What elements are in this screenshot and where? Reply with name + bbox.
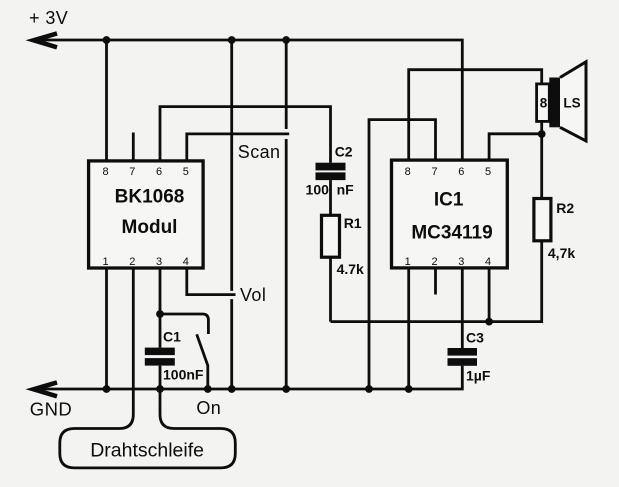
wire Scan switch upper (from +3V rail) <box>285 40 288 129</box>
wire BK1068 pin 6 to C2 top <box>160 107 331 163</box>
svg-text:1: 1 <box>405 256 411 268</box>
svg-text:8: 8 <box>405 166 411 178</box>
svg-text:5: 5 <box>183 166 189 178</box>
wire IC1 pin 5 to speaker bottom node <box>489 134 542 160</box>
node mid rail / IC1 pin 4 <box>485 318 493 326</box>
svg-text:2: 2 <box>431 256 437 268</box>
wire BK1068 pin 3 to C1 top <box>159 268 162 348</box>
svg-text:1: 1 <box>102 256 108 268</box>
wire IC1 pin 8 to speaker top <box>409 70 542 160</box>
svg-text:6: 6 <box>156 166 162 178</box>
node +3V rail / Scan wire <box>282 36 290 44</box>
svg-text:Drahtschleife: Drahtschleife <box>90 439 204 461</box>
svg-text:4: 4 <box>485 256 491 268</box>
svg-text:Scan: Scan <box>238 142 281 162</box>
svg-text:4: 4 <box>183 256 189 268</box>
wire BK1068 pin 4 to Vol switch contact <box>187 268 236 295</box>
wire BK1068 pin 7 stub <box>132 133 135 161</box>
node GND rail / C1 <box>156 385 164 393</box>
svg-text:8: 8 <box>540 96 548 111</box>
svg-text:LS: LS <box>563 96 580 111</box>
pin numbers BK1068 bottom 1 2 3 4 <box>102 256 188 268</box>
wire C2 bottom to R1 top <box>329 180 332 215</box>
pin numbers IC1 top 8 7 6 5 <box>405 166 492 178</box>
wire BK1068 pin 5 to Scan switch contact <box>187 134 289 161</box>
wire On switch blade and lower lead to GND <box>197 334 208 389</box>
svg-text:5: 5 <box>485 166 491 178</box>
svg-text:BK1068: BK1068 <box>115 187 185 208</box>
wire mid horizontal rail R1 to R2 <box>331 241 542 322</box>
svg-text:IC1: IC1 <box>434 190 464 211</box>
pin numbers IC1 bottom 1 2 3 4 <box>405 256 492 268</box>
wire BK1068 pin 8 to +3V rail <box>105 40 108 161</box>
node GND rail / IC1 pin 1 <box>405 385 413 393</box>
svg-text:2: 2 <box>129 256 135 268</box>
wire IC1 pin 7 to GND rail <box>369 120 436 389</box>
svg-text:C2: C2 <box>335 144 353 160</box>
svg-text:6: 6 <box>458 166 464 178</box>
pin numbers BK1068 top 8 7 6 5 <box>102 166 188 178</box>
wire IC1 pin 3 to C3 top <box>461 268 464 348</box>
resistor R1 <box>322 215 340 257</box>
svg-text:7: 7 <box>129 166 135 178</box>
svg-text:R1: R1 <box>344 215 362 231</box>
wire Scan switch lower (to GND rail) <box>285 139 288 389</box>
svg-text:3: 3 <box>458 256 464 268</box>
resistor R2 <box>534 199 551 241</box>
node GND rail / Scan wire <box>282 385 290 393</box>
svg-text:GND: GND <box>30 399 72 420</box>
speaker LS driver box with impedance 8 <box>537 84 550 122</box>
wire On switch branch from node at C1 <box>160 314 208 334</box>
svg-text:Vol: Vol <box>240 285 266 305</box>
svg-text:C1: C1 <box>163 329 181 345</box>
IC U1 BK1068 Modul box <box>89 161 204 268</box>
svg-text:100: 100 <box>306 181 330 197</box>
wire BK1068 pin 1 to GND rail <box>105 268 108 389</box>
wire R1 bottom to mid rail <box>329 257 332 321</box>
svg-text:R2: R2 <box>556 200 574 216</box>
svg-text:7: 7 <box>431 166 437 178</box>
svg-text:MC34119: MC34119 <box>411 223 492 244</box>
wire IC1 pin 2 stub <box>434 268 437 295</box>
svg-text:On: On <box>196 398 221 418</box>
IC U2 IC1 MC34119 box <box>392 160 508 268</box>
wire +3V rail top, continues down to IC1 pin 6 <box>33 40 462 160</box>
wire IC1 pin 4 to mid rail <box>488 268 491 322</box>
wire BK1068 pin 2 through loop to BK1068 pin 3 (Drahtschleife) <box>60 268 236 468</box>
node speaker bottom / IC1 pin 5 / R2 <box>538 130 546 138</box>
svg-text:8: 8 <box>102 166 108 178</box>
svg-text:1µF: 1µF <box>466 368 491 384</box>
svg-text:3: 3 <box>156 256 162 268</box>
svg-text:4.7k: 4.7k <box>337 261 364 277</box>
wire Vol switch upper (from +3V rail) <box>230 40 233 291</box>
capacitor C3 plates <box>448 348 478 366</box>
svg-text:+ 3V: + 3V <box>29 8 68 28</box>
svg-text:C3: C3 <box>466 329 484 345</box>
arrow +3V rail left <box>34 33 57 47</box>
node +3V rail / Vol wire <box>228 36 236 44</box>
node GND rail / On switch <box>204 385 212 393</box>
node GND rail / IC1 pin 7 wire <box>365 385 373 393</box>
arrow GND rail left <box>34 382 57 396</box>
svg-text:100nF: 100nF <box>163 367 204 383</box>
node +3V rail / pin 8 <box>103 36 111 44</box>
node GND rail / pin 1 <box>103 385 111 393</box>
svg-text:nF: nF <box>337 181 355 197</box>
svg-text:Modul: Modul <box>122 217 178 238</box>
speaker LS horn cone <box>560 62 586 141</box>
wire IC1 pin 1 to GND rail <box>407 268 410 389</box>
svg-text:4,7k: 4,7k <box>548 245 575 261</box>
capacitor C1 plates <box>145 348 175 366</box>
wire Vol switch lower (to GND rail) <box>230 299 233 389</box>
wire GND rail bottom, turns up to C3 bottom <box>33 366 462 389</box>
speaker LS magnet bar <box>549 78 560 128</box>
capacitor C2 plates <box>316 163 346 180</box>
node C1 top / On branch <box>156 310 164 318</box>
node GND rail / Vol wire <box>228 385 236 393</box>
wire speaker bottom to R2 top <box>540 121 543 198</box>
